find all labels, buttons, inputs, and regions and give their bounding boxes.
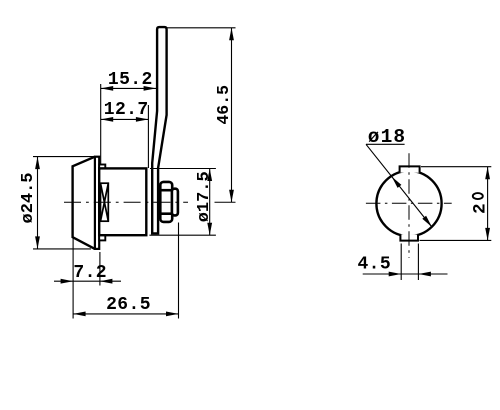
svg-text:26.5: 26.5: [106, 295, 151, 315]
svg-text:ø17.5: ø17.5: [195, 171, 214, 222]
dimension 7.2 line with outside arrows: [54, 279, 121, 284]
dimension dia 24.5 extension lines: [33, 157, 98, 249]
dimension 7.2 extension lines: [73, 239, 100, 319]
lock body cylinder: [99, 168, 146, 235]
top mounting tab: [99, 165, 105, 169]
rear view bottom tab: [400, 234, 418, 240]
lock head flange ring: [95, 157, 99, 249]
dimension 46.5 line with arrows: [229, 28, 234, 202]
bottom mounting tab: [99, 235, 105, 240]
dimension 15.2 extension line: [100, 84, 102, 164]
dimension 26.5 line with arrows: [73, 312, 178, 317]
svg-text:7.2: 7.2: [73, 263, 107, 283]
svg-text:46.5: 46.5: [214, 85, 233, 125]
svg-text:15.2: 15.2: [108, 70, 153, 90]
hex nut on body: [160, 182, 172, 222]
lock head front face and cone: [73, 157, 95, 249]
dimension 4.5 extension lines: [401, 244, 418, 281]
dimension dia 17.5 line with arrows: [207, 169, 212, 236]
dimension 20 extension lines: [420, 167, 492, 241]
svg-text:2: 2: [471, 203, 491, 214]
keyway hatch box with cross: [101, 183, 109, 221]
rear view horizontal centerline: [366, 202, 452, 204]
dimension 12.7 line with arrows: [101, 117, 149, 122]
svg-text:ø24.5: ø24.5: [19, 172, 38, 223]
dimension dia 18 arrows: [392, 177, 402, 188]
dimension dia 24.5 line with arrows: [35, 157, 40, 249]
dimension text 20: [471, 193, 491, 214]
dimension 26.5 extension line right: [178, 223, 180, 319]
dimension dia 17.5 extension lines: [149, 169, 216, 236]
rear view top tab: [400, 166, 420, 172]
dimension 15.2 line with arrows: [101, 86, 156, 91]
rear view vertical centerline: [408, 153, 410, 258]
dimension dia 18 leader and diagonal: [366, 144, 432, 227]
svg-text:12.7: 12.7: [104, 100, 149, 120]
svg-text:ø18: ø18: [368, 126, 406, 148]
dimension 20 line with arrows: [485, 167, 490, 241]
spindle tailpiece cap: [172, 189, 178, 216]
cam lever arm: [152, 27, 166, 233]
centerline left view: [64, 201, 236, 203]
svg-text:4.5: 4.5: [357, 255, 391, 275]
dimension 46.5 extension line: [167, 27, 236, 29]
rear view circle: [376, 171, 441, 236]
dimension 12.7 extension line: [147, 105, 149, 168]
dimension 4.5 line with outside arrows: [363, 272, 448, 277]
